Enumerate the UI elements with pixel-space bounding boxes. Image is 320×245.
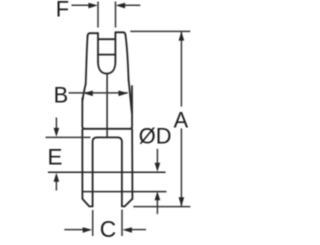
barrel bottom edge bbox=[84, 128, 130, 130]
top fork left lobe top edge bbox=[90, 32, 98, 34]
dim A vertical line upper bbox=[180, 31, 182, 106]
dim C right shaft bbox=[130, 229, 146, 231]
dim E down-arrow shaft bbox=[55, 118, 57, 130]
jaw pin top line bbox=[49, 171, 166, 173]
top fork right top corner bbox=[123, 32, 125, 35]
dim F left extension line bbox=[97, 2, 99, 28]
left flank-to-barrel arc bbox=[83, 84, 86, 100]
arrowhead OD down bbox=[155, 163, 161, 172]
arrowhead A top bbox=[179, 31, 185, 40]
svg-text:ØD: ØD bbox=[139, 124, 172, 149]
top fork right outer flank bbox=[126, 35, 129, 81]
right flank-to-barrel arc bbox=[129, 80, 132, 113]
dim OD down-arrow shaft bbox=[156, 149, 158, 164]
dim F right shaft bbox=[124, 4, 141, 6]
jaw right bottom chamfer bbox=[125, 199, 133, 207]
barrel left edge bbox=[82, 98, 84, 129]
barrel right edge bbox=[130, 86, 132, 129]
svg-text:F: F bbox=[56, 0, 69, 21]
top fork left top corner bbox=[88, 33, 90, 36]
top slot right edge bbox=[114, 32, 116, 61]
top slot U bottom bbox=[98, 62, 115, 74]
dim C left shaft bbox=[64, 229, 84, 231]
center line bbox=[106, 74, 108, 137]
top pin lower line bbox=[98, 54, 115, 56]
arrowhead B right bbox=[119, 91, 129, 97]
dim E up-arrow shaft bbox=[55, 181, 57, 190]
jaw right outer edge bbox=[131, 129, 133, 199]
dim B line bbox=[69, 92, 128, 94]
jaw pin bottom line bbox=[82, 191, 165, 193]
jaw right leg bottom bbox=[122, 205, 125, 207]
top fork right lobe top edge bbox=[115, 31, 123, 33]
arrowhead E up bbox=[54, 173, 60, 182]
dim E top line bbox=[46, 136, 91, 138]
top fork left outer flank bbox=[86, 36, 88, 84]
dim C right extension line bbox=[121, 210, 123, 237]
dim F right extension line bbox=[115, 2, 117, 28]
jaw slot top-right corner bbox=[117, 137, 122, 142]
jaw slot top edge bbox=[97, 136, 117, 138]
arrowhead F right bbox=[116, 3, 126, 9]
dim A top extension line bbox=[130, 30, 190, 32]
arrowhead OD up bbox=[155, 191, 161, 200]
dim OD up-arrow shaft bbox=[156, 200, 158, 214]
arrowhead B left bbox=[83, 91, 93, 97]
dim A bottom extension line bbox=[133, 206, 190, 208]
svg-text:B: B bbox=[54, 83, 69, 108]
svg-text:C: C bbox=[100, 216, 116, 240]
arrowhead E down bbox=[54, 128, 60, 137]
arrowhead A bottom bbox=[179, 197, 185, 206]
svg-text:A: A bbox=[174, 108, 189, 133]
jaw slot right edge bbox=[121, 142, 123, 207]
jaw left outer edge bbox=[81, 130, 83, 199]
dim F left shaft bbox=[72, 4, 91, 6]
top slot left edge bbox=[97, 33, 99, 61]
dim C left extension line bbox=[92, 210, 94, 236]
arrowhead C left bbox=[83, 227, 93, 233]
arrowhead F left bbox=[88, 3, 98, 9]
arrowhead C right bbox=[122, 227, 131, 233]
jaw slot top-left corner bbox=[93, 137, 98, 142]
dim A vertical line lower bbox=[180, 128, 182, 206]
jaw slot left edge bbox=[92, 142, 94, 207]
jaw left leg bottom bbox=[89, 205, 92, 207]
svg-text:E: E bbox=[48, 144, 63, 169]
jaw left bottom chamfer bbox=[82, 199, 89, 207]
top pin upper line bbox=[98, 38, 115, 40]
